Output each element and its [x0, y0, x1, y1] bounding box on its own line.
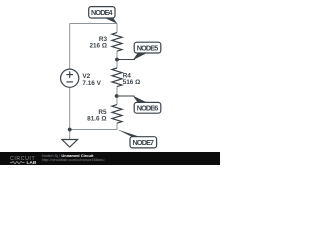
- svg-text:216 Ω: 216 Ω: [89, 43, 107, 50]
- svg-text:NODE6: NODE6: [137, 104, 159, 113]
- svg-text:516 Ω: 516 Ω: [123, 79, 141, 86]
- svg-text:7.16 V: 7.16 V: [82, 80, 101, 87]
- svg-text:NODE5: NODE5: [137, 43, 159, 52]
- svg-text:V2: V2: [82, 73, 90, 80]
- svg-text:LAB: LAB: [27, 160, 37, 165]
- svg-text:http://circuitlab.com/c/bxkwz4: http://circuitlab.com/c/bxkwz466avu: [42, 157, 105, 162]
- svg-text:NODE7: NODE7: [133, 138, 155, 147]
- svg-text:81.6 Ω: 81.6 Ω: [87, 115, 106, 122]
- svg-text:NODE4: NODE4: [91, 8, 113, 17]
